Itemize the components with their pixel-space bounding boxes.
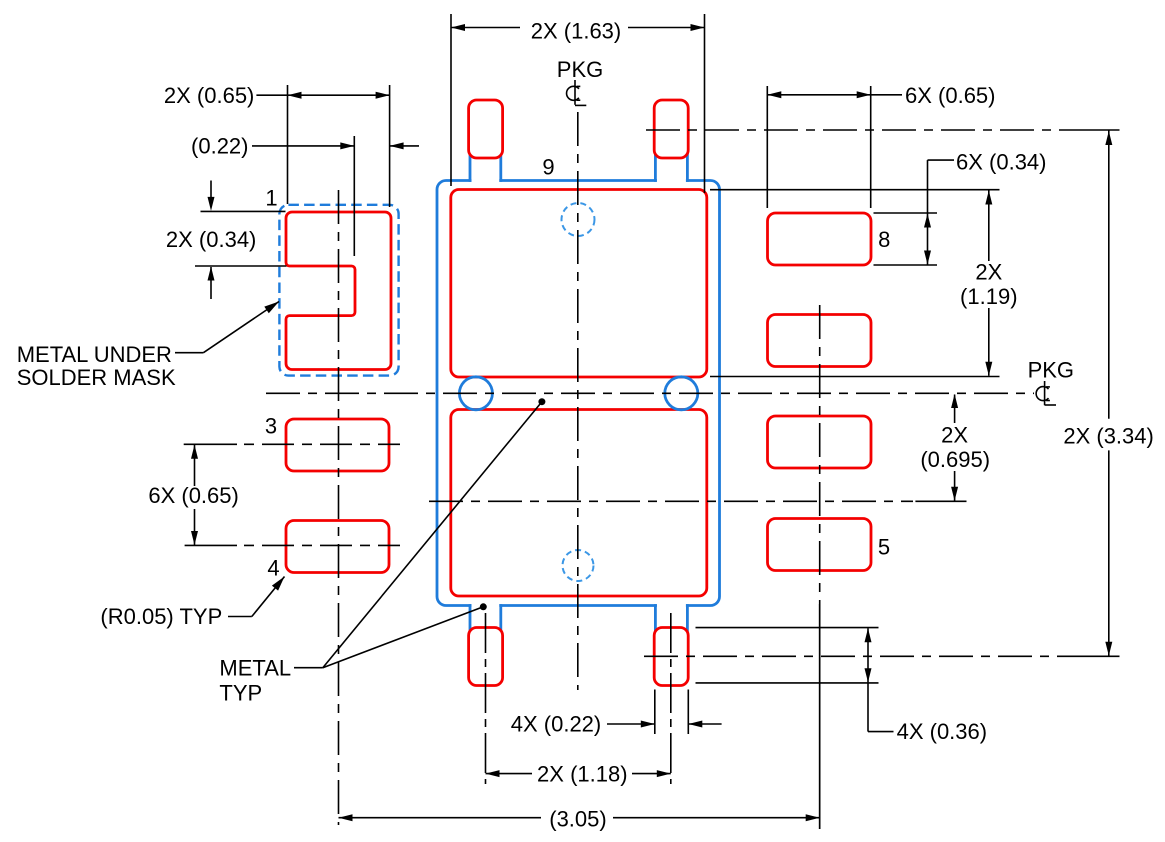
- svg-text:4X (0.36): 4X (0.36): [897, 719, 988, 744]
- svg-text:(0.22): (0.22): [191, 133, 248, 158]
- dim 4X (0.36) arrows and leader: [867, 628, 869, 682]
- svg-text:4: 4: [267, 556, 279, 581]
- pad 5: [768, 519, 872, 571]
- svg-text:2X (1.63): 2X (1.63): [531, 19, 622, 44]
- svg-text:2X: 2X: [941, 423, 968, 448]
- pad 3 row centerline: [184, 443, 237, 445]
- svg-text:5: 5: [878, 535, 890, 560]
- dim 6X (0.65) right extension lines: [766, 86, 768, 208]
- dim 2X (0.34) arrows: [210, 181, 212, 200]
- svg-text:TYP: TYP: [219, 681, 262, 706]
- svg-text:2X (0.65): 2X (0.65): [164, 83, 255, 108]
- svg-text:2X (1.18): 2X (1.18): [537, 762, 628, 787]
- via circle bottom (dashed blue): [563, 550, 594, 581]
- centerline symbol right: [1036, 387, 1048, 401]
- bottom-right corner pad centerline: [670, 613, 672, 784]
- via circle right (solid blue): [665, 377, 698, 410]
- corner lead pad bottom-right: [654, 628, 688, 686]
- top corner-pad row centerline: [646, 129, 1070, 131]
- svg-text:6X (0.34): 6X (0.34): [956, 150, 1047, 175]
- svg-text:(1.19): (1.19): [960, 284, 1017, 309]
- svg-text:(R0.05) TYP: (R0.05) TYP: [100, 604, 222, 629]
- leader (R0.05) TYP: [228, 616, 252, 618]
- svg-text:(0.695): (0.695): [920, 447, 990, 472]
- thermal pad bottom: [451, 410, 707, 597]
- lead trace tab top-left (pin 1 side): [470, 150, 501, 182]
- bottom-left corner pad centerline: [485, 613, 487, 784]
- dim 4X (0.22) line and arrows: [607, 723, 655, 725]
- vertical PKG centerline: [577, 112, 579, 690]
- pad 4: [286, 521, 389, 573]
- solder mask opening around pad 1 (blue dashed): [279, 205, 398, 376]
- pad 8: [768, 213, 872, 265]
- corner lead pad top-left: [469, 100, 503, 158]
- pad 4 row centerline: [185, 544, 237, 546]
- leader METAL UNDER SOLDER MASK: [175, 352, 203, 354]
- dim (0.22) extension line: [353, 136, 355, 256]
- dim 2X (1.63) line and arrows: [451, 27, 520, 29]
- pad 6: [768, 416, 872, 468]
- pad 3: [286, 419, 389, 471]
- dim 2X (1.19) reference lines: [710, 189, 1000, 191]
- dim (3.05) line and arrows: [339, 817, 542, 819]
- tab openings (erase body edge): [472, 179, 500, 183]
- dim 2X (0.34) reference lines: [201, 210, 286, 212]
- svg-text:(3.05): (3.05): [549, 807, 606, 832]
- svg-text:METAL UNDER: METAL UNDER: [17, 342, 172, 367]
- dim (0.22) line and arrows: [252, 145, 354, 147]
- pad 1 (C-shaped metal under solder mask): [286, 212, 391, 370]
- svg-text:8: 8: [878, 227, 890, 252]
- svg-text:9: 9: [542, 155, 554, 180]
- svg-text:METAL: METAL: [219, 656, 291, 681]
- svg-text:2X: 2X: [975, 260, 1002, 285]
- dim 2X (1.18) line and arrows: [486, 773, 533, 775]
- right pad column centerline: [819, 305, 821, 598]
- bottom corner-pad row centerline: [644, 655, 1070, 657]
- dim 4X (0.22) extension lines: [654, 690, 656, 735]
- svg-text:SOLDER MASK: SOLDER MASK: [17, 365, 176, 390]
- bottom thermal pad centerline: [429, 500, 913, 502]
- svg-text:2X (3.34): 2X (3.34): [1063, 424, 1154, 449]
- dim 2X (0.695) reference line: [915, 500, 966, 502]
- svg-text:PKG: PKG: [1028, 358, 1074, 383]
- horizontal PKG centerline: [266, 392, 1034, 394]
- lead trace tab bottom-left: [470, 604, 501, 636]
- corner lead pad top-right: [654, 100, 688, 158]
- dim 6X (0.65) right line and arrows: [767, 94, 902, 96]
- lead trace tab bottom-right: [655, 604, 687, 636]
- leader dot on thermal pad: [538, 398, 545, 405]
- thermal pad top (pin 9 metal): [451, 190, 707, 378]
- svg-text:6X (0.65): 6X (0.65): [148, 483, 239, 508]
- centerline symbol top: [567, 86, 579, 100]
- corner lead pad bottom-left: [469, 628, 503, 686]
- dim 2X (0.695) arrows: [954, 395, 956, 424]
- dim 6X (0.34) reference lines: [874, 212, 938, 214]
- dim 6X (0.65) left arrows: [194, 445, 196, 486]
- dim 4X (0.36) reference lines: [696, 627, 879, 629]
- dim 2X (3.34) line and arrows: [1108, 131, 1110, 419]
- leader dot on trace tab: [480, 603, 487, 610]
- dim 2X (0.65) extension lines: [287, 85, 289, 204]
- dim 6X (0.34) leader and arrows: [928, 159, 955, 161]
- svg-text:4X (0.22): 4X (0.22): [511, 712, 602, 737]
- dim 2X (0.65) line and arrows: [256, 94, 389, 96]
- svg-text:1: 1: [265, 186, 277, 211]
- svg-text:2X (0.34): 2X (0.34): [166, 227, 257, 252]
- via circle left (solid blue): [459, 377, 492, 410]
- via circle top (dashed blue): [562, 203, 595, 236]
- leader METAL TYP: [294, 667, 323, 669]
- pad 7: [768, 315, 872, 367]
- svg-text:6X (0.65): 6X (0.65): [905, 83, 996, 108]
- dim 2X (1.19) arrows: [988, 191, 990, 262]
- lead trace tab top-right: [655, 150, 687, 182]
- dim 2X (1.63) extension lines: [450, 14, 452, 186]
- dim (3.05) extension line right: [819, 600, 821, 829]
- svg-text:3: 3: [265, 414, 277, 439]
- svg-text:PKG: PKG: [557, 57, 603, 82]
- left pad column centerline: [338, 190, 340, 825]
- package solder-mask outline (blue body): [437, 181, 720, 606]
